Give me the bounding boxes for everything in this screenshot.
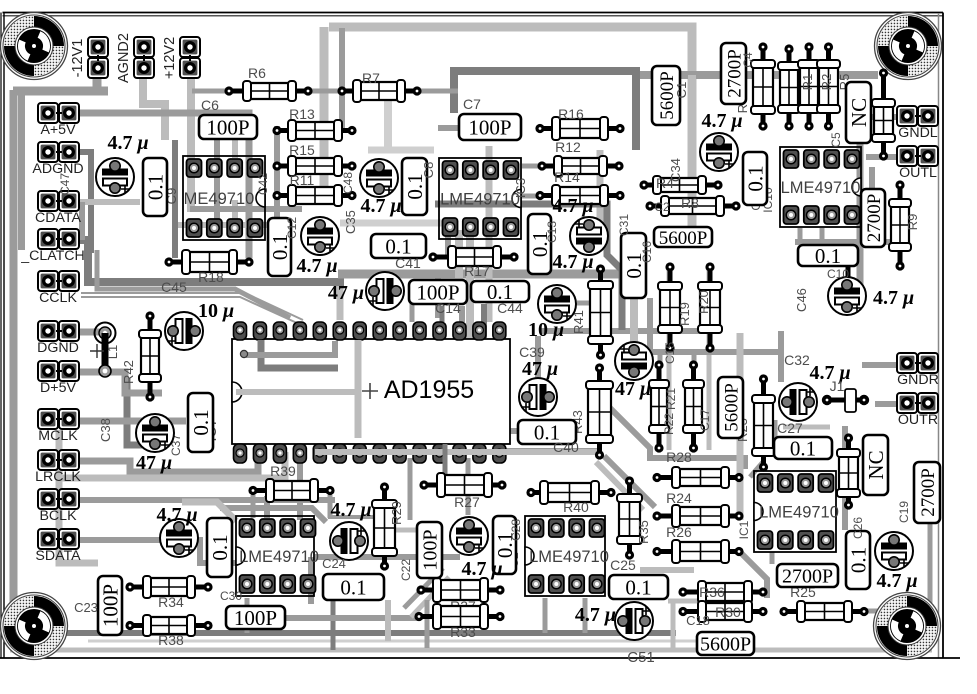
svg-text:4.7 μ: 4.7 μ xyxy=(701,110,742,132)
svg-text:OUTR: OUTR xyxy=(898,412,938,428)
svg-text:R27: R27 xyxy=(454,494,480,510)
svg-text:C25: C25 xyxy=(610,557,636,573)
svg-text:C41: C41 xyxy=(395,255,421,271)
svg-text:D+5V: D+5V xyxy=(40,380,76,396)
svg-text:R29: R29 xyxy=(389,501,404,525)
svg-text:J1: J1 xyxy=(830,378,845,394)
svg-text:47 μ: 47 μ xyxy=(136,452,172,474)
svg-text:C5: C5 xyxy=(829,132,843,148)
svg-text:LME49710: LME49710 xyxy=(759,504,839,522)
svg-text:R36: R36 xyxy=(699,584,725,600)
svg-text:C31: C31 xyxy=(617,214,631,236)
svg-text:R40: R40 xyxy=(563,499,589,515)
svg-text:0.1: 0.1 xyxy=(815,244,841,268)
svg-text:R12: R12 xyxy=(555,139,581,155)
svg-text:CCLK: CCLK xyxy=(39,290,77,306)
svg-text:A+5V: A+5V xyxy=(40,122,76,138)
svg-text:0.1: 0.1 xyxy=(790,437,816,461)
svg-text:R16: R16 xyxy=(558,106,584,122)
svg-text:100P: 100P xyxy=(206,116,249,140)
svg-text:L1: L1 xyxy=(105,345,120,359)
svg-text:C34: C34 xyxy=(668,158,683,182)
svg-text:R22: R22 xyxy=(662,413,676,435)
svg-text:C17: C17 xyxy=(698,409,712,431)
svg-text:NC: NC xyxy=(847,98,871,127)
svg-text:0.1: 0.1 xyxy=(189,409,213,435)
svg-text:-12V1: -12V1 xyxy=(70,39,86,78)
svg-text:_CLATCH: _CLATCH xyxy=(20,248,85,264)
svg-text:R7: R7 xyxy=(362,70,380,86)
svg-text:CDATA: CDATA xyxy=(35,210,82,226)
svg-text:C44: C44 xyxy=(497,300,523,316)
svg-text:OUTL: OUTL xyxy=(899,165,937,181)
svg-text:0.1: 0.1 xyxy=(847,547,871,573)
svg-text:C30: C30 xyxy=(220,589,242,603)
svg-text:C13: C13 xyxy=(545,221,559,243)
svg-text:C46: C46 xyxy=(794,288,809,312)
svg-text:10 μ: 10 μ xyxy=(198,300,234,322)
svg-text:2700P: 2700P xyxy=(782,566,833,588)
svg-text:DGND: DGND xyxy=(37,340,79,356)
svg-text:C42: C42 xyxy=(256,173,270,195)
svg-text:R34: R34 xyxy=(158,594,184,610)
svg-text:R30: R30 xyxy=(715,604,741,620)
svg-text:4.7 μ: 4.7 μ xyxy=(107,132,148,154)
svg-text:5600P: 5600P xyxy=(721,383,742,432)
svg-text:ME49710: ME49710 xyxy=(184,190,255,208)
svg-text:R8: R8 xyxy=(681,195,699,211)
svg-text:4.7 μ: 4.7 μ xyxy=(873,287,914,309)
svg-text:100P: 100P xyxy=(99,584,123,627)
svg-text:C24: C24 xyxy=(322,556,346,571)
svg-text:R18: R18 xyxy=(198,269,224,285)
svg-text:R21: R21 xyxy=(664,388,678,410)
svg-text:R26: R26 xyxy=(666,524,692,540)
svg-text:C1: C1 xyxy=(674,82,689,99)
svg-text:R33: R33 xyxy=(450,624,476,640)
svg-text:LRCLK: LRCLK xyxy=(35,469,81,485)
svg-text:4.7 μ: 4.7 μ xyxy=(876,570,917,592)
svg-text:LME49710: LME49710 xyxy=(440,191,520,209)
svg-text:C38: C38 xyxy=(98,418,113,442)
svg-text:R24: R24 xyxy=(666,490,692,506)
svg-text:R9: R9 xyxy=(905,214,920,231)
svg-text:C26: C26 xyxy=(851,517,865,539)
svg-text:100P: 100P xyxy=(468,116,511,140)
svg-text:C12: C12 xyxy=(285,217,299,239)
svg-text:R13: R13 xyxy=(289,106,315,122)
svg-text:C6: C6 xyxy=(201,97,219,113)
svg-text:C28: C28 xyxy=(509,519,523,541)
svg-text:R17: R17 xyxy=(464,263,490,279)
svg-text:0.1: 0.1 xyxy=(625,576,651,600)
svg-text:R42: R42 xyxy=(121,360,136,384)
svg-text:47 μ: 47 μ xyxy=(328,282,364,304)
svg-text:C32: C32 xyxy=(784,352,810,368)
svg-text:AD1955: AD1955 xyxy=(384,376,474,404)
svg-text:4.7 μ: 4.7 μ xyxy=(552,251,593,273)
svg-text:C39: C39 xyxy=(519,344,545,360)
svg-text:C4: C4 xyxy=(741,52,755,68)
svg-text:C19: C19 xyxy=(897,501,911,523)
svg-text:4.7 μ: 4.7 μ xyxy=(461,558,502,580)
svg-text:100P: 100P xyxy=(420,529,442,570)
svg-text:C48: C48 xyxy=(341,172,355,194)
svg-text:C22: C22 xyxy=(399,559,413,581)
svg-text:0.1: 0.1 xyxy=(744,165,768,191)
svg-text:C47: C47 xyxy=(58,173,72,195)
svg-text:C35: C35 xyxy=(343,210,358,234)
svg-text:LME49710: LME49710 xyxy=(239,548,319,566)
svg-text:R15: R15 xyxy=(289,142,315,158)
svg-text:C8: C8 xyxy=(421,162,436,179)
svg-text:SDATA: SDATA xyxy=(35,548,81,564)
svg-text:C14: C14 xyxy=(435,300,461,316)
svg-text:R20: R20 xyxy=(696,290,711,314)
svg-text:MCLK: MCLK xyxy=(38,428,78,444)
svg-text:R19: R19 xyxy=(677,302,692,326)
svg-text:GNDR: GNDR xyxy=(897,372,939,388)
svg-text:4.7 μ: 4.7 μ xyxy=(552,195,593,217)
svg-text:GNDL: GNDL xyxy=(898,125,938,141)
svg-text:C27: C27 xyxy=(777,420,803,436)
svg-text:R1: R1 xyxy=(800,74,815,91)
svg-text:4.7 μ: 4.7 μ xyxy=(575,604,616,626)
svg-text:IC3: IC3 xyxy=(513,178,528,198)
svg-text:4.7 μ: 4.7 μ xyxy=(330,499,371,521)
svg-text:0.1: 0.1 xyxy=(208,534,232,560)
svg-text:2700P: 2700P xyxy=(864,194,885,243)
svg-text:R2: R2 xyxy=(819,74,834,91)
svg-text:10 μ: 10 μ xyxy=(528,319,564,341)
svg-text:R14: R14 xyxy=(554,169,580,185)
svg-text:+12V2: +12V2 xyxy=(162,37,178,79)
svg-text:C23: C23 xyxy=(74,600,98,615)
svg-text:R38: R38 xyxy=(158,632,184,648)
svg-text:C2: C2 xyxy=(654,200,670,214)
svg-text:R39: R39 xyxy=(270,463,296,479)
svg-text:R28: R28 xyxy=(666,449,692,465)
svg-text:R35: R35 xyxy=(636,520,651,544)
svg-text:5600P: 5600P xyxy=(659,228,708,249)
svg-text:IC1: IC1 xyxy=(737,520,751,539)
svg-text:R11: R11 xyxy=(290,172,315,188)
svg-text:C16: C16 xyxy=(640,241,654,263)
svg-text:4.7 μ: 4.7 μ xyxy=(156,504,197,526)
svg-text:C45: C45 xyxy=(161,279,187,295)
svg-text:2700P: 2700P xyxy=(918,468,939,517)
svg-text:C18: C18 xyxy=(686,613,710,628)
svg-text:C10: C10 xyxy=(827,267,849,281)
svg-text:4.7 μ: 4.7 μ xyxy=(296,255,337,277)
svg-text:C15: C15 xyxy=(663,342,677,364)
svg-text:100P: 100P xyxy=(234,606,277,630)
svg-text:NC: NC xyxy=(864,450,888,479)
svg-text:LME49710: LME49710 xyxy=(529,548,609,566)
svg-text:C51: C51 xyxy=(627,649,655,666)
svg-text:5600P: 5600P xyxy=(700,634,751,656)
svg-text:47 μ: 47 μ xyxy=(522,358,558,380)
svg-text:AGND2: AGND2 xyxy=(116,33,132,83)
svg-text:4.7 μ: 4.7 μ xyxy=(360,195,401,217)
svg-text:BCLK: BCLK xyxy=(39,508,77,524)
svg-text:0.1: 0.1 xyxy=(340,576,366,600)
svg-text:47 μ: 47 μ xyxy=(615,378,651,400)
svg-text:0.1: 0.1 xyxy=(144,174,168,200)
svg-text:R6: R6 xyxy=(248,65,266,81)
svg-text:C7: C7 xyxy=(463,96,481,112)
svg-text:LME49710: LME49710 xyxy=(781,179,861,197)
svg-text:C40: C40 xyxy=(553,439,579,455)
